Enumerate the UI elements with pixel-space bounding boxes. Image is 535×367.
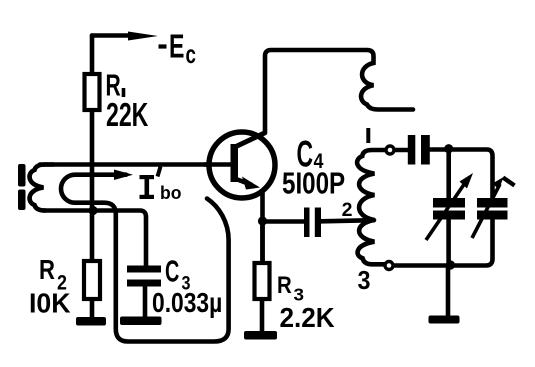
svg-text:I0K: I0K	[29, 287, 71, 318]
svg-text:c: c	[186, 39, 196, 69]
svg-text:R: R	[277, 271, 292, 298]
svg-text:R: R	[39, 255, 55, 286]
svg-text:bo: bo	[160, 183, 181, 204]
svg-text:E: E	[169, 29, 184, 66]
svg-text:5I00P: 5I00P	[282, 166, 345, 201]
svg-text:2: 2	[342, 199, 353, 221]
svg-text:C: C	[165, 253, 179, 289]
svg-text:2.2K: 2.2K	[280, 302, 336, 333]
svg-text:3: 3	[358, 267, 371, 295]
svg-text:3: 3	[294, 284, 305, 304]
svg-text:22K: 22K	[106, 97, 149, 134]
svg-text:0.033µ: 0.033µ	[152, 288, 222, 318]
